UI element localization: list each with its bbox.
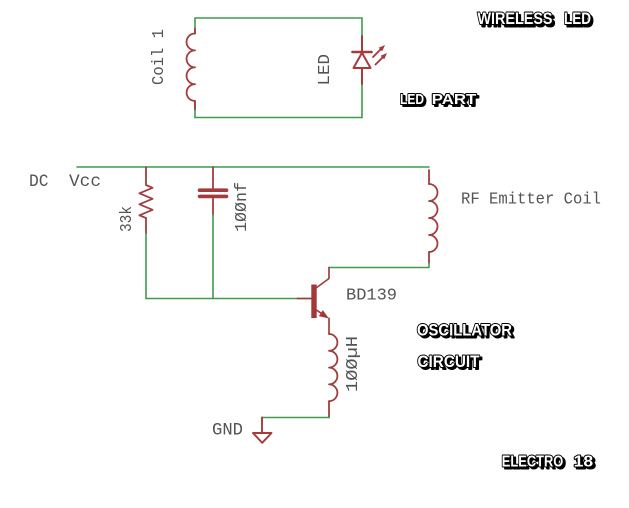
LED emission arrows: [373, 45, 387, 65]
label CIRCUIT: [418, 352, 483, 373]
label Vcc: [69, 172, 101, 192]
svg-text:LED: LED: [400, 91, 424, 108]
svg-text:33k: 33k: [118, 206, 137, 232]
capacitor C1 100nf: [200, 167, 227, 215]
svg-text:1ØØµH: 1ØØµH: [344, 336, 363, 392]
LED D1: [353, 36, 372, 84]
wire top loop bottom side: [195, 117, 362, 119]
svg-text:OSCILLATOR: OSCILLATOR: [417, 321, 512, 340]
wire capacitor bottom net: [212, 215, 214, 299]
label OSCILLATOR: [417, 321, 514, 342]
label Coil 1: [150, 29, 169, 85]
svg-text:BD139: BD139: [346, 287, 397, 306]
inductor L1 100uH: [329, 334, 337, 418]
wire top loop right side: [361, 18, 363, 118]
wire RF coil to collector: [329, 263, 429, 268]
label LED PART: [400, 91, 479, 110]
label ELECTRO 18: [502, 453, 596, 472]
svg-text:DC: DC: [29, 172, 49, 192]
resistor R1 33k: [139, 167, 152, 234]
svg-text:WIRELESS: WIRELESS: [478, 9, 553, 28]
wire Vcc rail: [77, 166, 429, 168]
transistor Q1 BD139: [298, 268, 330, 335]
wire emitter to ground: [262, 417, 329, 419]
label 100nf: [233, 182, 252, 232]
label WIRELESS LED: [478, 9, 594, 30]
label RF Emitter Coil: [461, 191, 601, 210]
svg-text:LED: LED: [316, 54, 335, 86]
svg-text:CIRCUIT: CIRCUIT: [418, 352, 481, 371]
label 100uH: [344, 336, 363, 392]
wire base rail: [146, 298, 298, 300]
inductor RF Emitter Coil: [429, 170, 438, 263]
wire resistor bottom net: [145, 234, 147, 299]
inductor Coil 1: [187, 29, 195, 110]
wire top loop left side: [194, 18, 196, 118]
label 33k: [118, 206, 137, 232]
svg-text:GND: GND: [212, 421, 243, 441]
ground: [253, 418, 272, 443]
svg-text:Vcc: Vcc: [69, 172, 101, 192]
svg-text:ELECTRO: ELECTRO: [502, 453, 564, 470]
wire top loop top side: [195, 17, 362, 19]
svg-text:PART: PART: [432, 91, 477, 108]
label LED: [316, 54, 335, 86]
svg-text:RF Emitter Coil: RF Emitter Coil: [461, 191, 601, 210]
label DC: [29, 172, 49, 192]
svg-text:1ØØnf: 1ØØnf: [233, 182, 252, 232]
svg-text:18: 18: [574, 453, 594, 470]
label GND: [212, 421, 243, 441]
svg-text:LED: LED: [564, 9, 591, 28]
svg-text:Coil 1: Coil 1: [150, 29, 169, 85]
label BD139: [346, 287, 397, 306]
